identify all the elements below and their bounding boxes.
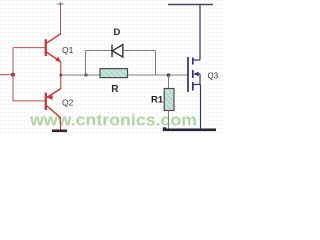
ground Q2 (52, 130, 67, 133)
wire output node to R (61, 74, 100, 76)
resistor R1 (164, 89, 174, 111)
wire emitter Q1 down to node (60, 62, 62, 75)
wire R1 bottom lead (168, 111, 170, 130)
transistor Q2 (46, 89, 61, 118)
wire diode left lead (86, 50, 112, 52)
svg-text:www.cntronics.com: www.cntronics.com (29, 111, 197, 130)
wire emitter Q2 up to node (60, 75, 62, 89)
svg-text:D: D (114, 27, 121, 38)
wire R1 top lead (168, 75, 170, 89)
wire collector Q1 to VCC (60, 6, 62, 34)
wire input lead left (0, 74, 13, 76)
svg-text:Q3: Q3 (208, 72, 219, 81)
node emitter junction (60, 74, 63, 77)
svg-text:Q1: Q1 (62, 45, 74, 55)
wire base bus vertical (12, 48, 14, 101)
wire source to ground (200, 85, 202, 130)
resistor R (100, 69, 128, 78)
transistor Q1 (46, 34, 61, 63)
wire R to gate (128, 74, 188, 76)
power symbol VCC (58, 2, 64, 7)
node ground junction (163, 127, 166, 130)
svg-text:R1: R1 (151, 94, 164, 105)
drain rail top (168, 4, 213, 6)
svg-text:Q2: Q2 (62, 98, 74, 108)
wire collector Q2 to ground (60, 118, 62, 131)
wire diode right lead (123, 50, 156, 52)
node input tee junction (11, 73, 15, 77)
wire base Q1 (13, 47, 45, 49)
ground rail bottom right (163, 129, 216, 132)
wire diode branch right vertical (155, 51, 157, 76)
node R1 branch junction (167, 74, 170, 77)
wire base Q2 (13, 100, 45, 102)
diode D (112, 45, 123, 57)
wire drain vertical (199, 5, 201, 61)
arrow Q3 substrate (193, 72, 198, 76)
node diode branch junction (85, 74, 88, 77)
transistor Q3 MOSFET (188, 57, 200, 92)
wire diode branch left vertical (85, 51, 87, 76)
svg-text:R: R (111, 84, 119, 95)
